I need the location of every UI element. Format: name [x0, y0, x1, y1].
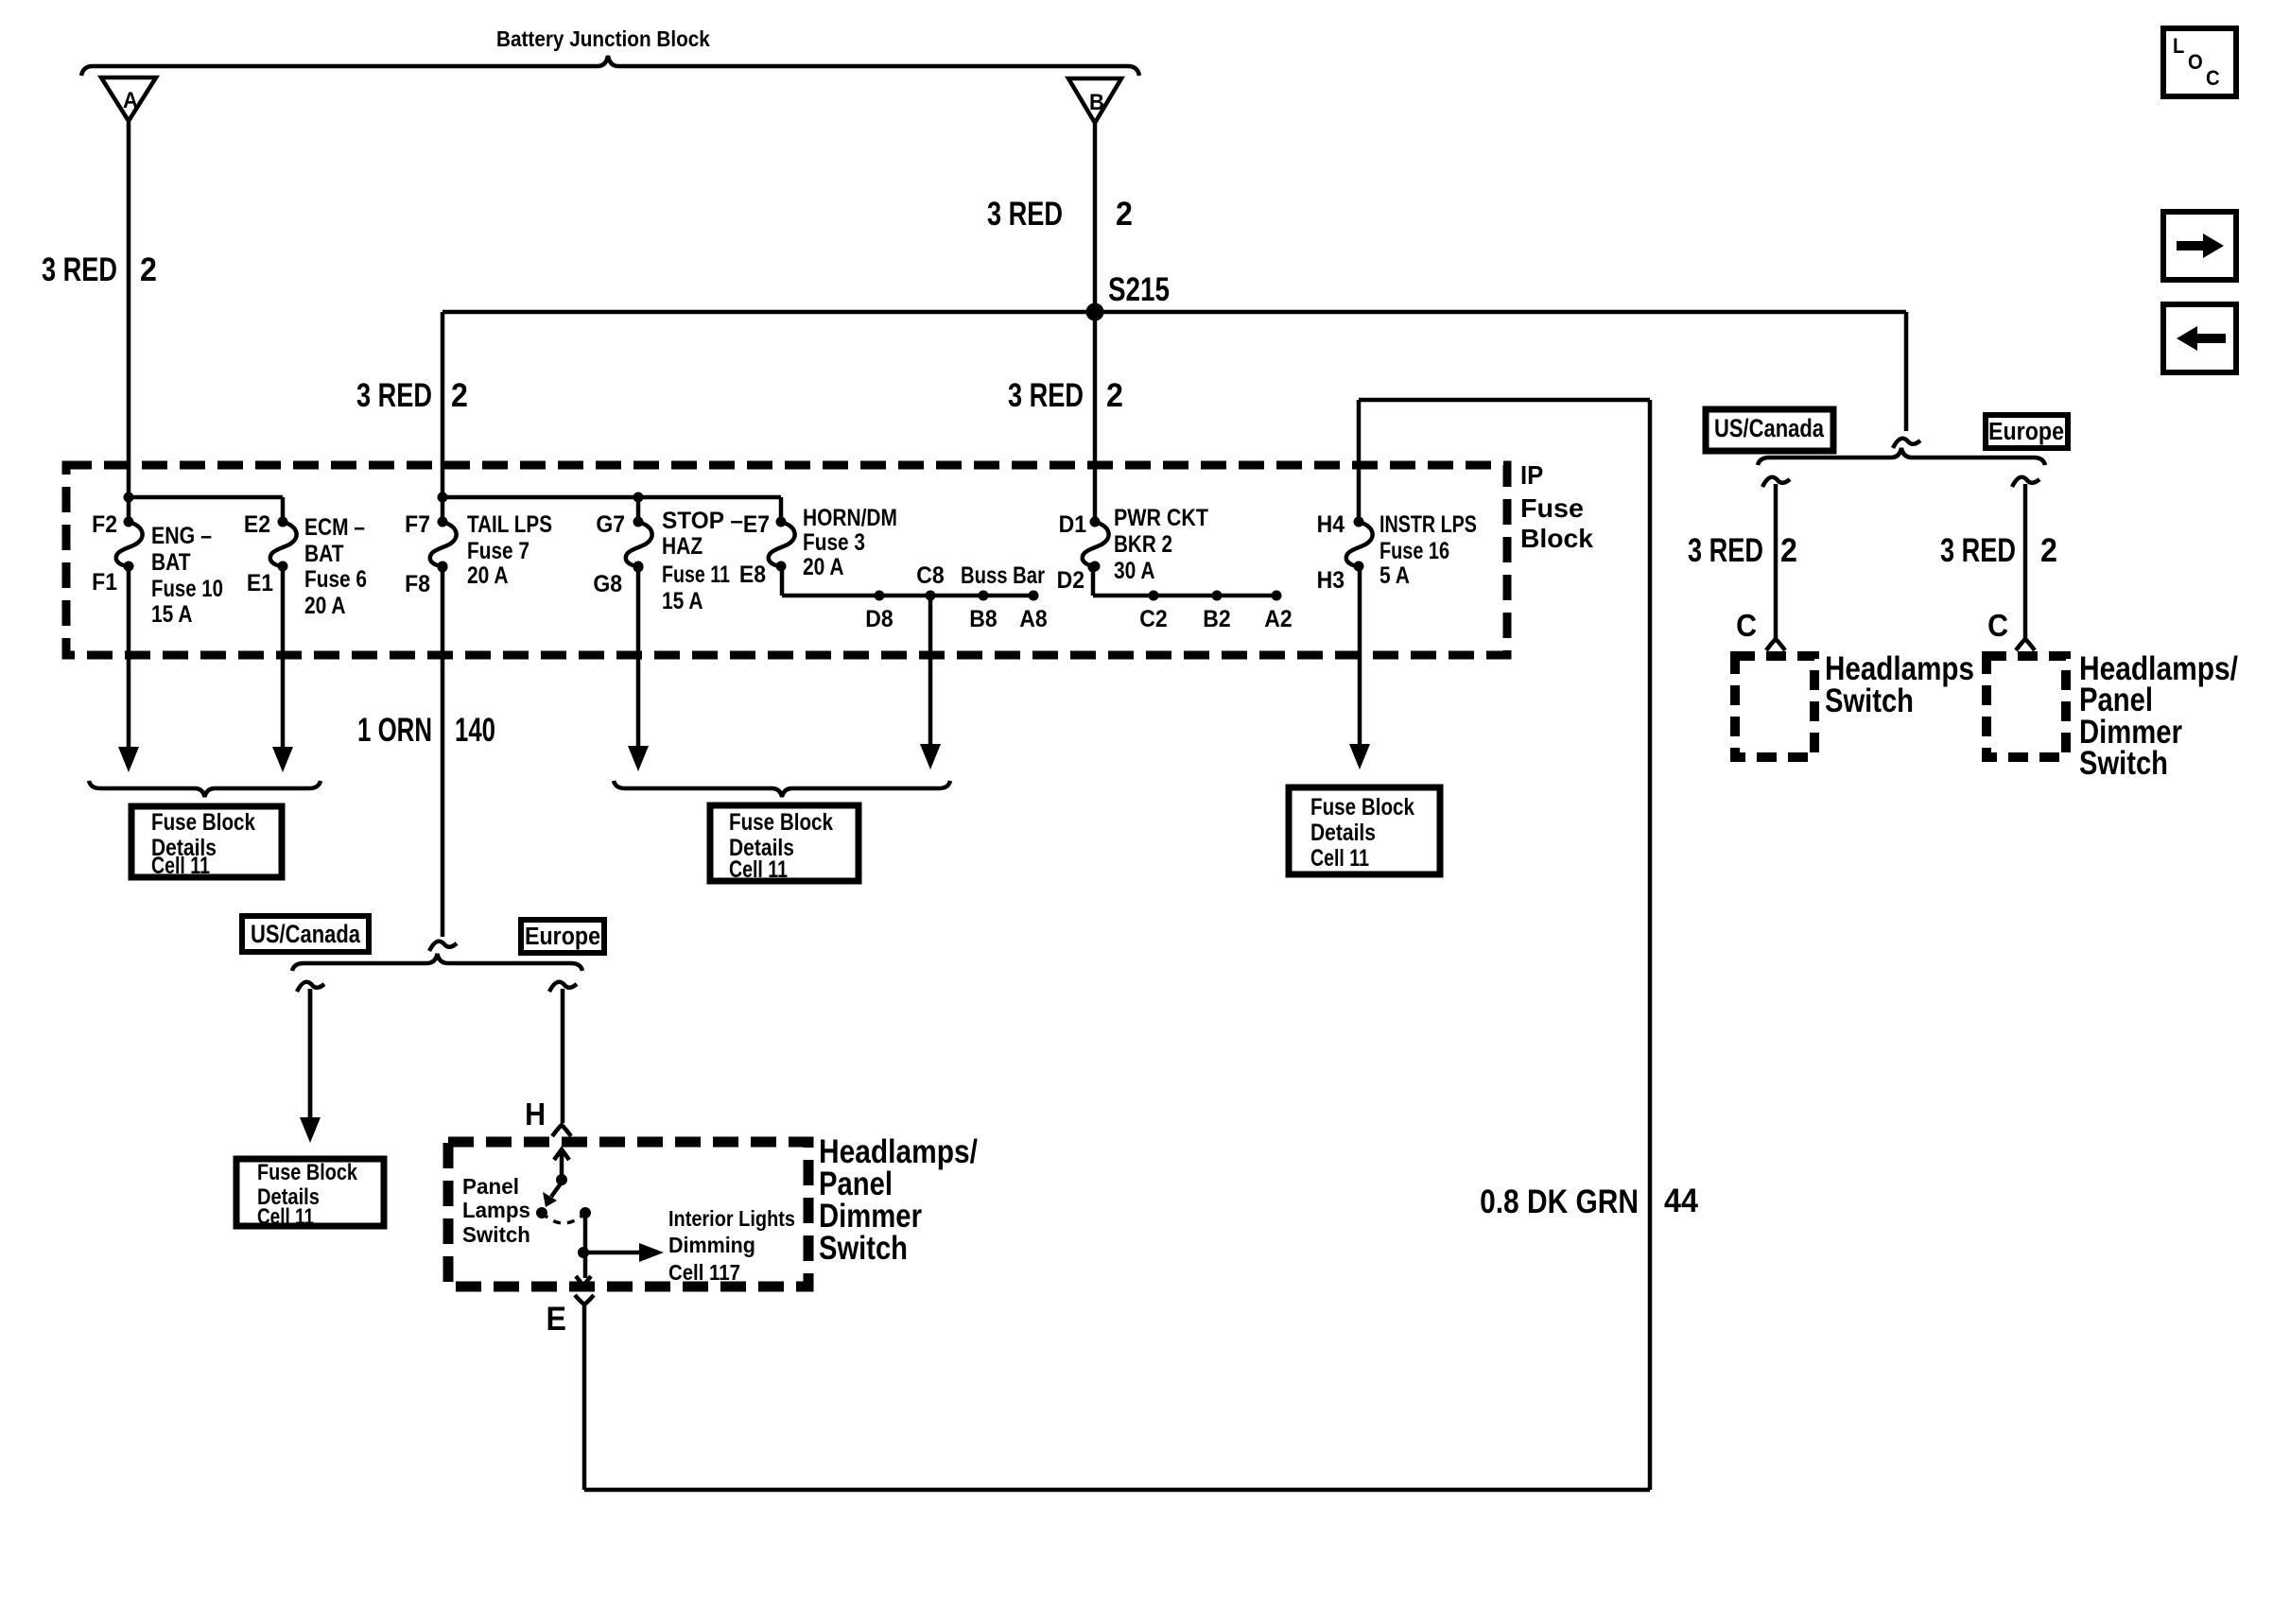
svg-text:3 RED: 3 RED: [1008, 377, 1084, 414]
svg-text:C: C: [2206, 67, 2220, 90]
svg-text:30 A: 30 A: [1114, 557, 1155, 583]
svg-text:A2: A2: [1264, 606, 1292, 632]
svg-text:STOP –: STOP –: [662, 509, 743, 534]
svg-text:0.8 DK GRN: 0.8 DK GRN: [1480, 1183, 1639, 1220]
svg-text:O: O: [2188, 51, 2203, 74]
svg-text:Europe: Europe: [525, 924, 600, 950]
svg-text:Buss Bar: Buss Bar: [961, 561, 1045, 589]
svg-text:Panel: Panel: [462, 1174, 519, 1199]
svg-text:44: 44: [1664, 1183, 1698, 1219]
svg-text:D2: D2: [1057, 567, 1084, 594]
svg-text:PWR CKT: PWR CKT: [1114, 504, 1208, 530]
svg-text:Dimming: Dimming: [668, 1233, 755, 1257]
svg-text:2: 2: [1116, 197, 1133, 233]
svg-text:3 RED: 3 RED: [1940, 532, 2016, 569]
svg-text:B2: B2: [1203, 606, 1230, 632]
svg-text:20 A: 20 A: [304, 592, 346, 618]
svg-text:1 ORN: 1 ORN: [357, 711, 432, 749]
svg-text:F7: F7: [405, 511, 430, 538]
svg-text:BAT: BAT: [151, 548, 191, 575]
svg-text:A8: A8: [1019, 606, 1047, 632]
svg-text:C2: C2: [1139, 606, 1167, 632]
svg-text:3 RED: 3 RED: [987, 196, 1063, 233]
svg-text:2: 2: [2040, 533, 2057, 570]
svg-text:Block: Block: [1520, 524, 1593, 553]
svg-text:A: A: [123, 87, 138, 112]
svg-text:Switch: Switch: [462, 1222, 530, 1247]
svg-text:Fuse Block: Fuse Block: [729, 808, 833, 835]
svg-text:Switch: Switch: [2079, 744, 2168, 781]
svg-text:2: 2: [1106, 378, 1123, 415]
svg-text:H4: H4: [1317, 511, 1345, 538]
svg-text:2: 2: [451, 378, 468, 415]
svg-text:S215: S215: [1108, 270, 1170, 308]
svg-text:E1: E1: [247, 570, 273, 596]
svg-text:Cell 11: Cell 11: [729, 856, 788, 883]
svg-text:C: C: [1987, 608, 2008, 643]
svg-text:Fuse 7: Fuse 7: [467, 537, 529, 563]
svg-text:Cell 11: Cell 11: [1310, 845, 1369, 872]
svg-text:Fuse 6: Fuse 6: [304, 565, 367, 592]
svg-text:F2: F2: [92, 511, 117, 538]
svg-text:D8: D8: [865, 606, 893, 632]
svg-text:Fuse 16: Fuse 16: [1379, 538, 1449, 564]
svg-text:US/Canada: US/Canada: [251, 921, 360, 949]
svg-text:B8: B8: [969, 606, 997, 632]
svg-text:15 A: 15 A: [662, 587, 703, 613]
svg-text:E: E: [547, 1302, 566, 1339]
svg-text:TAIL LPS: TAIL LPS: [467, 510, 552, 537]
svg-text:BKR 2: BKR 2: [1114, 530, 1172, 557]
svg-text:Cell 11: Cell 11: [151, 853, 210, 879]
svg-text:Fuse 3: Fuse 3: [803, 528, 865, 555]
svg-text:Europe: Europe: [1988, 419, 2064, 445]
svg-text:3 RED: 3 RED: [1688, 532, 1763, 569]
svg-text:H3: H3: [1317, 567, 1345, 594]
svg-text:H: H: [525, 1097, 546, 1132]
svg-text:ECM –: ECM –: [304, 513, 365, 540]
svg-text:C: C: [1736, 608, 1757, 643]
svg-text:C8: C8: [916, 562, 944, 589]
svg-text:G7: G7: [596, 511, 625, 538]
svg-text:20 A: 20 A: [467, 561, 509, 588]
svg-text:5 A: 5 A: [1379, 561, 1410, 588]
svg-text:Fuse 11: Fuse 11: [662, 561, 730, 588]
svg-text:Fuse Block: Fuse Block: [257, 1159, 358, 1184]
svg-text:Cell 11: Cell 11: [257, 1203, 314, 1230]
svg-text:Cell 117: Cell 117: [668, 1260, 740, 1285]
svg-text:Interior Lights: Interior Lights: [668, 1207, 795, 1232]
svg-text:E2: E2: [244, 511, 270, 538]
svg-text:F8: F8: [405, 571, 430, 597]
svg-text:HORN/DM: HORN/DM: [803, 504, 897, 530]
svg-text:Fuse: Fuse: [1520, 493, 1584, 524]
svg-text:2: 2: [140, 252, 157, 289]
svg-text:ENG –: ENG –: [151, 522, 212, 548]
svg-text:BAT: BAT: [304, 540, 344, 566]
svg-text:Fuse Block: Fuse Block: [1310, 793, 1414, 820]
svg-text:E8: E8: [739, 561, 766, 588]
svg-text:US/Canada: US/Canada: [1714, 415, 1824, 443]
svg-text:F1: F1: [92, 569, 117, 596]
svg-text:2: 2: [1780, 533, 1797, 570]
svg-text:G8: G8: [593, 571, 622, 597]
svg-text:D1: D1: [1059, 511, 1086, 538]
svg-text:Battery Junction Block: Battery Junction Block: [496, 26, 711, 51]
svg-text:3 RED: 3 RED: [42, 251, 117, 288]
svg-text:E7: E7: [743, 511, 770, 538]
svg-text:140: 140: [455, 711, 495, 749]
svg-text:B: B: [1089, 89, 1104, 114]
svg-text:L: L: [2173, 35, 2184, 58]
svg-text:20 A: 20 A: [803, 553, 844, 579]
svg-text:Details: Details: [1310, 819, 1376, 845]
svg-text:Lamps: Lamps: [462, 1198, 530, 1222]
svg-text:HAZ: HAZ: [662, 532, 703, 559]
svg-text:INSTR LPS: INSTR LPS: [1379, 511, 1477, 538]
svg-text:3 RED: 3 RED: [356, 377, 432, 414]
svg-text:Switch: Switch: [1825, 682, 1914, 718]
svg-text:15 A: 15 A: [151, 600, 193, 627]
svg-text:Fuse Block: Fuse Block: [151, 808, 255, 835]
svg-text:IP: IP: [1520, 460, 1543, 490]
svg-text:Fuse 10: Fuse 10: [151, 575, 223, 601]
svg-text:Switch: Switch: [819, 1229, 908, 1266]
